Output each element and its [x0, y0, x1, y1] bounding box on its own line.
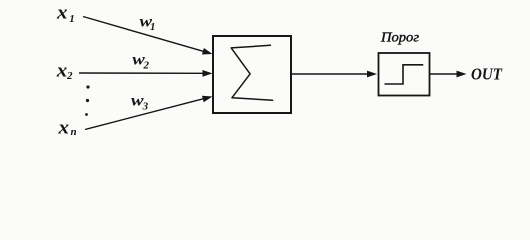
input node xn label	[57, 118, 76, 139]
sigma symbol	[231, 45, 272, 100]
output wire with arrowhead	[430, 71, 467, 78]
svg-text:OUT: OUT	[471, 65, 503, 84]
svg-text:3: 3	[142, 100, 149, 112]
weight label w3	[131, 92, 149, 112]
input node x1 label	[56, 3, 75, 25]
weight label w1	[140, 13, 156, 33]
svg-text:x: x	[56, 3, 68, 24]
threshold block	[379, 53, 430, 96]
wire NET summer to threshold with arrowhead	[292, 71, 377, 78]
svg-text:x: x	[57, 118, 69, 139]
vertical ellipsis dots	[85, 85, 90, 116]
weight label w2	[132, 52, 149, 72]
step function symbol	[385, 65, 424, 84]
input node x2 label	[56, 60, 73, 82]
wire x1 to summer with arrowhead	[83, 17, 213, 58]
svg-text:1: 1	[150, 21, 156, 33]
svg-text:2: 2	[66, 70, 73, 82]
wire x2 to summer with arrowhead	[79, 70, 213, 77]
wire xn to summer with arrowhead	[85, 93, 213, 129]
summation block U1	[213, 36, 291, 113]
svg-text:Порог: Порог	[380, 30, 420, 45]
svg-text:2: 2	[143, 60, 150, 72]
svg-text:n: n	[71, 126, 77, 138]
svg-text:1: 1	[69, 13, 75, 25]
